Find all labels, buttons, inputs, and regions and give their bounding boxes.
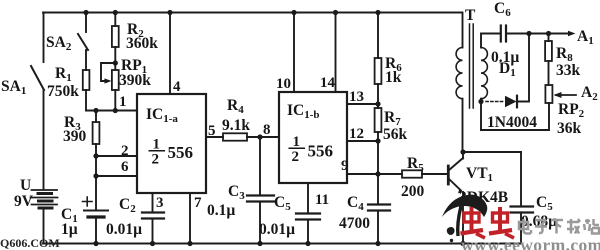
svg-text:A2: A2	[581, 84, 598, 103]
timer IC1-b box	[279, 92, 347, 183]
svg-text:13: 13	[349, 89, 364, 105]
transformer T secondary winding	[481, 48, 487, 99]
svg-text:0.1µ: 0.1µ	[207, 202, 235, 219]
watermark gray char zhan	[584, 219, 599, 234]
wire R2 to RP1	[114, 47, 116, 70]
watermark red character chong 1	[461, 207, 486, 238]
battery U 9V	[31, 190, 58, 208]
wire RP1 to node wire	[114, 90, 116, 111]
svg-text:C4: C4	[347, 194, 364, 213]
svg-text:C5: C5	[536, 194, 553, 213]
RP2 wiper wire to A2	[556, 94, 576, 96]
wire R8 to RP2	[548, 61, 550, 85]
diode D1 triangle	[505, 96, 517, 108]
wire pin5 to R4	[206, 136, 223, 138]
wire pin14 vertical	[335, 13, 337, 93]
svg-text:C3: C3	[228, 183, 245, 202]
svg-text:4700: 4700	[339, 215, 370, 232]
wire top supply rail	[43, 12, 462, 14]
resistor R2 360k	[112, 26, 119, 47]
wire node12 down to pin9 wire	[377, 141, 379, 174]
svg-text:T: T	[465, 7, 476, 24]
svg-text:14: 14	[320, 75, 336, 91]
svg-text:IC1-b: IC1-b	[287, 102, 320, 121]
wire bottom return loop to RP2	[481, 103, 549, 130]
svg-text:C6: C6	[494, 0, 511, 19]
RP2 wiper arrowhead	[554, 92, 562, 98]
watermark red character chong 2	[489, 207, 514, 238]
RP1 wiper arrowhead	[105, 78, 112, 83]
transistor VT1 3DK4B	[447, 166, 450, 184]
resistor R4 9.1k	[223, 133, 247, 140]
svg-text:SA2: SA2	[46, 34, 72, 53]
svg-text:556: 556	[308, 142, 334, 161]
wire secondary top to C6	[481, 34, 500, 48]
wire pin3 vertical	[152, 193, 154, 212]
wire pin13 horizontal	[347, 103, 378, 105]
svg-text:2: 2	[152, 152, 160, 168]
svg-text:1µ: 1µ	[61, 221, 78, 238]
potentiometer RP1 390k body	[112, 70, 119, 90]
capacitor C4 4700	[368, 203, 390, 205]
svg-text:9.1k: 9.1k	[222, 117, 250, 134]
wire R6 top	[377, 13, 379, 59]
svg-text:10: 10	[276, 76, 291, 92]
wire pin9 horizontal	[347, 173, 402, 175]
watermark gray char zai	[567, 219, 580, 234]
resistor R6 1k	[375, 58, 382, 84]
svg-text:0.01µ: 0.01µ	[259, 221, 295, 238]
svg-text:4: 4	[173, 79, 181, 95]
resistor R8 33k	[545, 41, 552, 61]
wire pin2 horizontal	[96, 155, 137, 157]
svg-text:3: 3	[156, 195, 164, 211]
wire left rail to battery	[43, 90, 45, 189]
svg-text:5: 5	[208, 123, 216, 139]
svg-text:U: U	[20, 177, 31, 194]
switch SA2 blade	[78, 34, 88, 50]
wire VT1 emitter to ground rail	[462, 192, 464, 244]
svg-text:1N4004: 1N4004	[487, 114, 537, 131]
svg-text:200: 200	[401, 183, 425, 200]
wire R6 to node 13	[377, 84, 379, 108]
svg-text:C5: C5	[274, 194, 291, 213]
capacitor C5 0.01u	[296, 212, 320, 214]
wire D1 cathode up to output line	[517, 34, 529, 102]
resistor R8 33k top wire	[548, 34, 550, 42]
wire pin10 vertical	[293, 13, 295, 93]
watermark gray char dian	[519, 219, 531, 234]
capacitor C3 0.1u	[247, 194, 274, 196]
svg-text:C2: C2	[119, 196, 136, 215]
svg-text:R4: R4	[227, 97, 244, 116]
svg-text:56k: 56k	[383, 126, 408, 143]
svg-text:6: 6	[121, 159, 129, 175]
capacitor C2 0.01u	[142, 211, 164, 213]
svg-text:2: 2	[292, 149, 300, 165]
resistor R7 56k	[375, 108, 382, 132]
wire pin4 vertical	[169, 13, 171, 95]
transformer T primary bottom wire	[462, 99, 464, 152]
svg-text:2: 2	[121, 143, 129, 159]
watermark ink splash	[442, 195, 487, 217]
svg-text:12: 12	[349, 126, 364, 142]
capacitor C6 0.1u	[500, 26, 502, 42]
wire C3 branch vertical	[259, 137, 261, 195]
svg-text:R5: R5	[407, 155, 424, 174]
watermark gray char zi	[535, 220, 547, 233]
svg-text:390k: 390k	[119, 72, 151, 89]
wire secondary bottom	[480, 99, 482, 130]
wire pin11 vertical	[307, 183, 309, 213]
svg-text:VT1: VT1	[466, 165, 493, 184]
wire R4 to pin8	[247, 136, 279, 138]
wire R3 top	[95, 111, 97, 123]
wire pin12 horizontal	[347, 140, 378, 142]
switch SA1 blade	[31, 66, 44, 90]
watermark gray char xia	[551, 220, 563, 234]
arrow output A1	[568, 31, 576, 37]
svg-text:8: 8	[263, 122, 271, 138]
diode D1 cathode bar	[516, 96, 518, 108]
svg-text:390: 390	[63, 128, 87, 145]
resistor R2 360k top wire	[114, 13, 116, 27]
potentiometer RP2 36k body	[545, 85, 552, 103]
wire R5 to VT1 base	[422, 173, 447, 175]
capacitor C1 1u electrolytic	[84, 210, 108, 212]
resistor R3 390	[93, 122, 100, 144]
wire SA2 to R1	[85, 50, 87, 70]
svg-text:1k: 1k	[385, 69, 402, 86]
svg-text:556: 556	[168, 143, 194, 162]
wire battery to bottom rail	[43, 208, 45, 244]
svg-text:Q606.COM: Q606.COM	[0, 236, 60, 250]
transformer T primary winding	[456, 48, 462, 99]
switch SA2 upper wire	[85, 13, 87, 33]
wire C4 branch	[377, 174, 379, 204]
wire R1 to node wire	[85, 90, 87, 111]
svg-text:33k: 33k	[556, 62, 581, 79]
diode D1 1N4004 dotted anode wire	[486, 101, 504, 103]
wire bottom ground rail	[43, 243, 521, 245]
svg-text:IC1-a: IC1-a	[146, 106, 178, 125]
wire C6 to A1	[506, 33, 572, 35]
RP1 wiper loop wire	[101, 63, 115, 81]
wire pin1 horizontal (node 1)	[86, 110, 137, 112]
transformer core lines	[469, 24, 471, 108]
svg-text:360k: 360k	[126, 35, 158, 52]
svg-text:11: 11	[315, 192, 329, 208]
svg-text:9V: 9V	[14, 193, 34, 210]
wire R3 down to C1	[95, 144, 97, 210]
wire pin7 vertical	[189, 193, 191, 244]
C1 plus sign	[83, 197, 93, 206]
resistor R5 200	[402, 170, 422, 177]
svg-text:SA1: SA1	[1, 78, 26, 97]
wire left rail upper (to SA1)	[43, 13, 45, 63]
wire R7 bottom to pin12 node	[377, 132, 379, 141]
svg-text:A1: A1	[577, 28, 594, 47]
capacitor C5 0.68u	[511, 205, 534, 207]
svg-text:RP2: RP2	[558, 101, 585, 120]
svg-text:1: 1	[119, 94, 127, 110]
op-amp timer IC1-a box	[137, 94, 206, 193]
transformer T primary top wire	[462, 13, 464, 48]
svg-text:36k: 36k	[557, 120, 582, 137]
wire pin6 horizontal	[96, 175, 137, 177]
svg-text:R1: R1	[55, 65, 72, 84]
svg-text:7: 7	[194, 195, 202, 211]
svg-text:9: 9	[341, 158, 349, 174]
svg-text:750k: 750k	[47, 83, 79, 100]
resistor R1 750k	[83, 70, 90, 90]
svg-text:0.01µ: 0.01µ	[106, 221, 142, 238]
wire VT1 collector node to C5 branch	[463, 151, 521, 153]
svg-text:www.eeworm.com: www.eeworm.com	[461, 235, 600, 250]
